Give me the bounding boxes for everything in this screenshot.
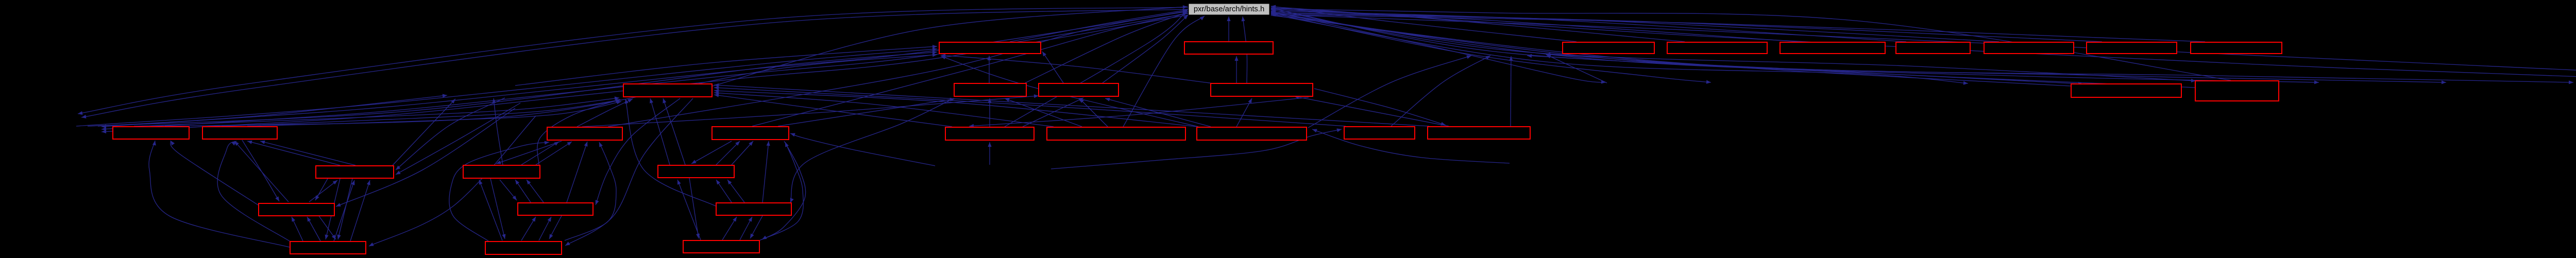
edge N20 to N10 vert	[988, 98, 991, 127]
node N11	[1039, 83, 1118, 96]
edge N13 to V1	[1546, 53, 2071, 86]
edge ghost4 to N20 vert	[988, 142, 991, 165]
edge N23 to N34	[714, 86, 1346, 126]
edge N22 to N1	[941, 56, 1198, 127]
node N34	[623, 84, 712, 97]
node N33	[683, 240, 759, 253]
edge N9 to root	[1271, 13, 2205, 42]
node N26	[463, 165, 540, 178]
edge in to N29 r	[596, 98, 680, 205]
edge N21 to N34	[714, 91, 1054, 127]
edge N14 to root	[1271, 7, 2231, 80]
edge N7 to root	[1271, 11, 1999, 42]
edge N24 to N12	[1294, 95, 1449, 126]
edge N25 to N17 a	[247, 141, 340, 165]
edge N20 to N11	[1023, 98, 1083, 127]
edge root to N14	[1271, 10, 2196, 82]
edge N27 to N34 b	[663, 98, 685, 165]
edge in to N25 r1	[396, 98, 505, 170]
edge N25 to ghost-mid	[393, 99, 455, 165]
edge N12 to N2	[1234, 56, 1238, 83]
edge root to ghostr0	[1271, 11, 1606, 84]
edge N16 to N34	[134, 96, 619, 126]
edge N15 to root	[1271, 13, 2576, 80]
node N22	[1197, 127, 1307, 140]
edge N12 to N24	[1314, 89, 1446, 126]
node N6	[1896, 42, 1970, 54]
edge N4 to root	[1271, 6, 1685, 42]
node N9	[2191, 42, 2282, 54]
edge N19 to N27	[691, 141, 732, 164]
edge N1 to root	[1010, 9, 1188, 42]
edge N20 to root	[1005, 9, 1188, 127]
node N24	[1428, 127, 1530, 139]
edge N19 to N33 arc	[762, 141, 806, 239]
edge N25 to N28	[315, 179, 328, 200]
edge in to N31 r	[369, 116, 536, 246]
edge in to N30 r	[790, 98, 954, 203]
edge N32 to N29 b	[539, 217, 551, 240]
node N27	[658, 165, 734, 178]
edge N21 to N10	[1005, 98, 1082, 127]
edge N34 to root	[713, 5, 1188, 86]
edge N11 to N1	[1042, 51, 1063, 83]
edge in to N28 r	[336, 108, 515, 207]
edge N22 to N11	[1105, 98, 1211, 127]
edge N16 to N1	[165, 53, 937, 126]
edge N33 to N27	[677, 180, 701, 240]
edge N30 to N34 arc	[625, 99, 716, 206]
edge ghost5 to N22	[1312, 129, 1510, 164]
node N12	[1211, 83, 1313, 96]
edge N33 to N19 arc	[759, 142, 803, 240]
node N10	[954, 83, 1026, 96]
edge N29 to N26 a	[515, 180, 531, 202]
edge N27 to N19 a	[716, 141, 740, 165]
edge N28 to N31	[318, 215, 336, 239]
edge N8 to root	[1271, 12, 2102, 42]
edge N31 to N25 a	[334, 180, 355, 241]
node N30	[716, 203, 791, 215]
edge N12 to root	[1242, 16, 1247, 83]
edge N19 to N10	[778, 98, 955, 126]
edge N31 to N17 arc	[217, 141, 291, 242]
edge N31 to N28 b	[307, 217, 320, 241]
edge N5 to root	[1271, 8, 1798, 42]
edge N17 to N34 d	[247, 100, 621, 126]
edge N32 to N18 arc	[565, 142, 616, 240]
edge N29 to N32	[549, 216, 562, 239]
edge N29 to N18	[567, 142, 588, 202]
node N23	[1344, 127, 1415, 139]
edge N24 to N34	[714, 83, 1429, 126]
node N1	[939, 42, 1041, 54]
edge N26 to N18 a	[521, 142, 559, 165]
edge N21 to N11	[1079, 98, 1108, 127]
edge N18 to N34	[577, 99, 633, 127]
edge N26 to N18 b	[536, 142, 572, 165]
edge N31 to N16 arc	[149, 141, 290, 247]
edge ghostr0 to V1	[1546, 55, 1607, 83]
node N13	[2071, 84, 2181, 97]
edge N23 to V1	[1391, 56, 1490, 126]
edge N12 to N20	[969, 97, 1309, 128]
edge root to ghostr5	[1271, 15, 2573, 84]
edge root to ghostr2	[1271, 14, 1968, 85]
edge N25 to N17 b	[260, 141, 355, 165]
edge N25 to N31 b	[337, 179, 352, 239]
node N25	[316, 166, 394, 178]
edge N33 to N30 b	[740, 217, 752, 240]
edge N25 to N31 a	[325, 179, 340, 239]
edge root to N15	[1271, 7, 2576, 82]
edge N32 to N26	[479, 180, 502, 240]
edge N22 to N34	[714, 89, 1198, 127]
edge N26 to ghost-mid	[493, 98, 503, 165]
node root pxr/base/arch/hints.h	[1189, 4, 1269, 15]
edge N21 to root	[1123, 16, 1205, 127]
node N18	[547, 127, 622, 140]
edge N17 to N34 c	[222, 99, 620, 126]
edge N28 to N17	[234, 141, 289, 202]
node N19	[712, 127, 789, 140]
edge N30 to N19	[762, 141, 770, 202]
node N2	[1184, 42, 1273, 54]
edge N27 to N19 b	[732, 141, 753, 165]
edge root to ghost-a	[78, 7, 1188, 115]
edge N22 to N12	[1236, 98, 1252, 127]
edge N32 to N18 left arc	[449, 141, 549, 241]
edge V1 to root	[1271, 11, 1474, 43]
node N16	[113, 127, 189, 139]
edge root to N13	[1271, 8, 2083, 85]
edge in to N32 r	[565, 98, 693, 246]
node N21	[1047, 127, 1185, 140]
edge N6 to root	[1271, 9, 1906, 42]
edge N27 to N34 a	[650, 98, 670, 165]
edge N2 to root	[1227, 16, 1230, 41]
edge ghost-left to N1	[76, 47, 937, 126]
edge ghost-mid to N1	[515, 45, 937, 85]
edge N17 to N28	[242, 140, 279, 201]
edge ghost-left to ghost-mid	[98, 94, 447, 126]
edge in to N25 r2	[396, 103, 520, 175]
svg-text:pxr/base/arch/hints.h: pxr/base/arch/hints.h	[1194, 5, 1264, 13]
edge N24 to V1 vert	[1509, 56, 1513, 126]
node N7	[1984, 42, 2074, 54]
edge N20 to N34	[714, 94, 952, 127]
edge N18 to root	[608, 10, 1188, 127]
edge N30 to N27 b	[727, 180, 744, 202]
node N4	[1667, 42, 1767, 54]
edge root to ghost-a2	[81, 9, 1188, 118]
edge N31 to N25 b	[350, 180, 370, 241]
edge N30 to N27 a	[716, 180, 732, 202]
node N3	[1563, 42, 1654, 54]
edge N19 to root	[752, 12, 1188, 127]
edge N27 to N33 x	[689, 178, 700, 238]
edge N28 to N16	[171, 141, 260, 206]
node N8	[2087, 42, 2177, 54]
edge root to ghost-left 2	[101, 13, 1188, 131]
edge N11 to root	[1103, 15, 1188, 83]
node N14	[2195, 81, 2279, 101]
edge N26 to N34	[537, 99, 620, 165]
edge N26 to N29	[500, 180, 517, 200]
node N20	[945, 127, 1034, 140]
edge N31 to N28 a	[292, 217, 303, 241]
node N28	[259, 203, 334, 216]
edge N12 to N1	[941, 54, 1213, 83]
edge N3 to root	[1271, 5, 1577, 42]
node N5	[1780, 42, 1885, 54]
edge N26 to N32 x	[490, 179, 505, 239]
node N29	[518, 203, 593, 215]
edge root to ghostr4	[1271, 14, 2446, 84]
edge N18 to N11	[582, 94, 1039, 127]
node N17	[202, 127, 277, 139]
edge ghost4 to N19	[790, 133, 935, 166]
edge N10 to N1 vert	[987, 56, 991, 83]
edge N30 to N33	[750, 216, 762, 238]
edge ghost-left to N1 b	[88, 50, 937, 126]
edge N33 to N30 a	[722, 217, 737, 240]
edge N29 to N26 b	[527, 180, 544, 202]
node N32	[485, 242, 562, 254]
edge root to ghost-left 3	[101, 15, 1188, 133]
edge N18 to N26	[496, 141, 562, 164]
edge N14 to V1	[1527, 54, 2195, 88]
edge ghost4 to N23	[1051, 128, 1342, 169]
edge root to ghostr3	[1271, 12, 2319, 84]
node N31	[290, 242, 366, 254]
edge N28 to N25	[309, 180, 337, 202]
edge root to ghost-left	[101, 11, 1188, 128]
edge N32 to N29 a	[521, 217, 536, 240]
edge N22 to V1	[1308, 55, 1471, 128]
edge root to ghostr1	[1271, 13, 1711, 84]
edge N10 to root	[1025, 12, 1188, 83]
